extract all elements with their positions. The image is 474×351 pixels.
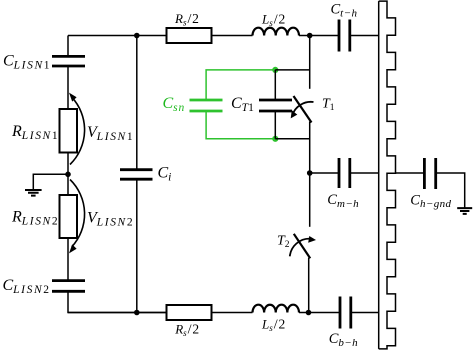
wire heatsink to C_h-gnd (396, 172, 425, 174)
arrowhead T1 (291, 110, 298, 118)
wire L_s/2 to node A (299, 35, 310, 37)
wire C_T1 bottom to green node (275, 111, 309, 139)
capacitor C_t-h (339, 20, 350, 52)
green node top (272, 67, 278, 73)
wire C_i branch bottom (136, 179, 138, 312)
green snubber loop wire (206, 70, 275, 139)
wire node to C_b-h (299, 312, 340, 314)
node A dot (307, 33, 313, 39)
arrowhead T2 (308, 236, 316, 243)
switch T1 arrow (292, 102, 313, 116)
voltage arrow V_LISN2 (70, 180, 85, 247)
svg-text:CLISN1: CLISN1 (3, 53, 50, 72)
node dot C_i top (134, 33, 140, 39)
heatsink comb (379, 1, 396, 349)
wire T2 to bottom rail (308, 258, 310, 313)
switch T2 blade (294, 234, 310, 258)
svg-text:Ch−gnd: Ch−gnd (410, 192, 451, 210)
ground left (25, 190, 42, 196)
capacitor C_LISN1 (52, 56, 85, 66)
voltage arrow V_LISN1 (70, 97, 85, 164)
wire top-left corner to R_s/2 (68, 36, 167, 57)
wire C_LISN2 to bottom rail (68, 291, 167, 312)
switch T2 arrow (290, 239, 310, 257)
node dot bottom right (306, 310, 312, 316)
wire R_s/2 to L_s/2 top (212, 35, 253, 37)
wire node A down to T1 (309, 36, 311, 89)
capacitor C_LISN2 (52, 281, 85, 292)
wire node A to C_t-h (310, 35, 339, 37)
wire C_h-gnd to right ground (436, 173, 465, 208)
heatsink spine (378, 1, 380, 349)
svg-text:RLISN2: RLISN2 (11, 209, 58, 228)
svg-text:Cm−h: Cm−h (327, 192, 359, 210)
svg-text:Cb−h: Cb−h (329, 331, 358, 349)
wire mid node down to T2 (309, 173, 311, 227)
svg-text:Ci: Ci (158, 165, 172, 184)
svg-text:T2: T2 (277, 233, 290, 250)
wire to ground (33, 174, 68, 189)
arrowhead V_LISN2 (69, 244, 77, 253)
svg-text:Csn: Csn (163, 95, 186, 114)
svg-text:RLISN1: RLISN1 (11, 123, 58, 142)
capacitor C_i (120, 170, 153, 180)
wire C_t-h to heatsink (350, 35, 379, 37)
inductor L_s/2 bottom (253, 305, 299, 313)
svg-text:CT1: CT1 (231, 95, 254, 114)
wire green node to T1 branch top (275, 70, 309, 100)
capacitor C_m-h (339, 158, 350, 188)
node dot C_i bottom (134, 310, 140, 316)
svg-text:Ct−h: Ct−h (331, 2, 358, 20)
mid node dot (307, 170, 313, 176)
wire mid node to C_m-h (310, 172, 339, 174)
svg-text:Ls/2: Ls/2 (261, 11, 285, 28)
wire C_i branch top (136, 36, 138, 170)
wire node to R_LISN2 (67, 174, 69, 195)
capacitor C_T1 (259, 100, 292, 111)
switch T1 blade (294, 96, 312, 123)
resistor R_LISN1 (60, 109, 78, 153)
node junction left (65, 172, 71, 178)
arrowhead V_LISN1 (69, 93, 77, 102)
wire R_LISN2 to C_LISN2 (67, 238, 69, 281)
capacitor C_sn (190, 100, 223, 111)
svg-text:VLISN1: VLISN1 (87, 124, 133, 143)
wire T1 to mid node (309, 122, 311, 174)
svg-text:Ls/2: Ls/2 (261, 316, 285, 333)
inductor L_s/2 top (253, 28, 299, 36)
green node bottom (272, 136, 278, 142)
resistor R_s/2 bottom (167, 305, 212, 320)
resistor R_s/2 top (167, 28, 212, 43)
wire R_LISN1 to node (67, 153, 69, 175)
svg-text:T1: T1 (322, 97, 335, 114)
wire C_m-h to heatsink (350, 172, 379, 174)
wire C_b-h to heatsink (351, 312, 379, 314)
resistor R_LISN2 (60, 195, 78, 238)
wire C_LISN1 to R_LISN1 (67, 66, 69, 109)
wire R_s/2 to L_s/2 bottom (212, 312, 253, 314)
capacitor C_h-gnd (424, 158, 435, 189)
bottom rail wire (68, 312, 167, 314)
svg-text:Rs/2: Rs/2 (174, 322, 199, 339)
capacitor C_b-h (340, 297, 351, 329)
svg-text:Rs/2: Rs/2 (174, 11, 199, 28)
svg-text:CLISN2: CLISN2 (3, 277, 50, 296)
svg-text:VLISN2: VLISN2 (87, 210, 133, 229)
ground right (457, 208, 472, 214)
